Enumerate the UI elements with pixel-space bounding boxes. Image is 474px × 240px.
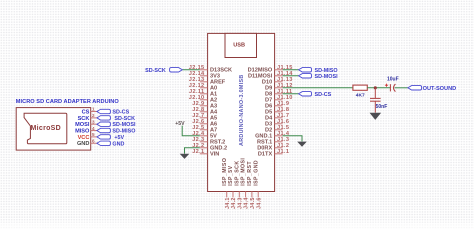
svg-text:MOSI: MOSI [75,122,90,128]
svg-text:USB: USB [233,42,245,48]
svg-text:ISP_5V: ISP_5V [228,165,234,185]
svg-text:ISP_GND: ISP_GND [253,160,259,186]
svg-text:GND: GND [77,141,89,147]
svg-text:2: 2 [92,113,95,118]
svg-text:SD-CS: SD-CS [112,110,129,116]
svg-text:3: 3 [92,119,95,124]
svg-text:SD-MOSI: SD-MOSI [315,74,339,80]
svg-text:50nF: 50nF [376,104,388,110]
svg-text:ISP_MOSI: ISP_MOSI [241,158,247,186]
svg-text:VCC: VCC [78,135,90,141]
svg-text:MISO: MISO [75,129,90,135]
svg-text:5: 5 [92,132,95,137]
svg-text:J1.1: J1.1 [277,149,289,155]
svg-text:J4.3: J4.3 [237,197,243,209]
svg-text:J4.6: J4.6 [256,197,262,209]
svg-text:SCK: SCK [78,116,90,122]
svg-text:MicroSD: MicroSD [31,125,62,132]
svg-text:SD-SCK: SD-SCK [114,116,135,122]
svg-text:D1TX: D1TX [258,152,273,158]
svg-text:SD-SCK: SD-SCK [145,68,166,74]
svg-text:10uF: 10uF [387,76,399,82]
svg-text:CS: CS [82,109,90,115]
svg-text:VIN: VIN [210,152,219,158]
svg-text:ISP_MISO: ISP_MISO [222,158,228,186]
svg-text:J4.2: J4.2 [231,197,237,209]
svg-text:4: 4 [92,126,95,131]
svg-text:MICRO SD CARD ADAPTER ARDUINO: MICRO SD CARD ADAPTER ARDUINO [16,99,120,105]
svg-text:J4.1: J4.1 [225,197,231,209]
svg-text:1: 1 [92,107,95,112]
svg-text:ISP_SCK: ISP_SCK [234,160,240,185]
svg-text:GND: GND [112,141,124,147]
svg-text:6: 6 [92,138,95,143]
svg-text:SD-MISO: SD-MISO [112,129,135,135]
svg-text:J4.4: J4.4 [244,197,250,209]
svg-text:SD-MOSI: SD-MOSI [112,122,136,128]
svg-text:J4.5: J4.5 [250,197,256,209]
svg-text:ISP_RST: ISP_RST [247,161,253,186]
svg-text:+5V: +5V [114,135,124,141]
svg-text:OUT-SOUND: OUT-SOUND [423,86,457,92]
svg-text:+5V: +5V [175,121,185,127]
svg-text:SD-CS: SD-CS [315,92,332,98]
svg-text:ARDUINO-NANO-3.0MISB: ARDUINO-NANO-3.0MISB [239,74,245,146]
svg-text:J2.1: J2.1 [192,149,204,155]
svg-text:4K7: 4K7 [356,93,365,99]
